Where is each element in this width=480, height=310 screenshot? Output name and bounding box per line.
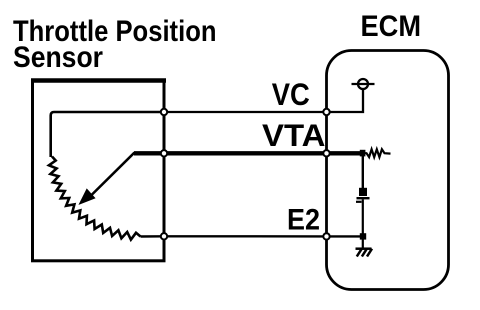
- resistor R inside ECM on VTA: [363, 149, 391, 157]
- wire E2 node inside ECM: [327, 235, 364, 237]
- svg-text:Sensor: Sensor: [13, 41, 103, 74]
- wire potentiometer end to E2 junction: [141, 235, 165, 238]
- capacitor small tick: [356, 201, 362, 203]
- svg-text:VTA: VTA: [262, 117, 326, 153]
- node E2 at ECM: [323, 233, 329, 239]
- wiper arrowhead: [80, 190, 94, 204]
- wire circle to VC node: [327, 89, 364, 112]
- junction VTA-resistor (filled): [360, 150, 366, 157]
- wire VTA node down to capacitor: [362, 155, 364, 189]
- capacitor C bottom plate: [357, 197, 370, 199]
- sensor box (Throttle Position Sensor): [33, 81, 165, 261]
- VC terminal crossbar: [352, 83, 375, 85]
- node VC at ECM: [323, 109, 329, 115]
- node VTA at ECM: [323, 150, 329, 156]
- junction E2 (filled): [360, 233, 366, 239]
- svg-text:ECM: ECM: [361, 10, 422, 43]
- wire VC (sensor to ECM): [164, 111, 327, 113]
- wire E2 (sensor to ECM): [164, 235, 327, 237]
- ECM box: [327, 51, 449, 290]
- node E2 at sensor box: [161, 233, 167, 239]
- wire capacitor to E2 node: [362, 200, 364, 237]
- sensor box thick top edge: [31, 78, 166, 83]
- VC terminal circle inside ECM: [358, 79, 368, 89]
- potentiometer R (zigzag arc): [49, 157, 141, 240]
- node VC at sensor box: [161, 109, 167, 115]
- wire E2 node to ground: [362, 236, 364, 248]
- svg-text:VC: VC: [272, 76, 310, 112]
- wiper arrow line: [90, 153, 135, 197]
- ground (chassis): [356, 249, 373, 257]
- svg-text:E2: E2: [287, 203, 320, 236]
- capacitor C top plate (filled): [359, 188, 367, 196]
- node VTA at sensor box: [161, 150, 167, 156]
- wire VC inside sensor (to potentiometer top): [51, 112, 164, 157]
- wire VTA thick (wiper to ECM): [134, 151, 363, 155]
